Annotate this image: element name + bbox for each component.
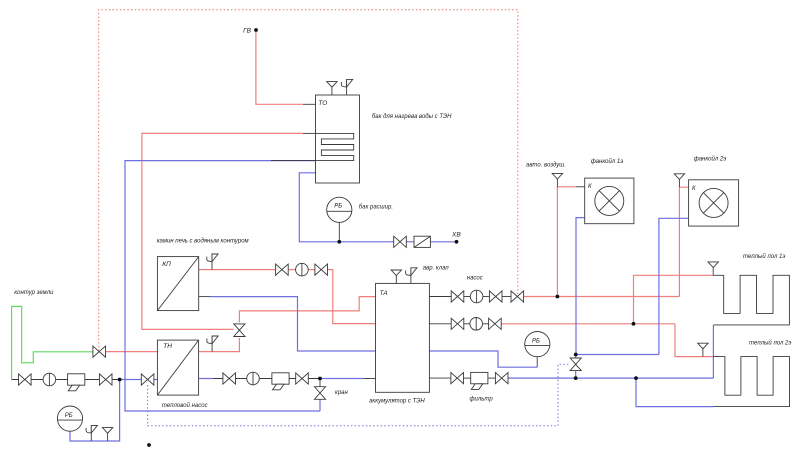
- svg-text:РБ: РБ: [65, 413, 73, 419]
- heat pump TH: [157, 340, 198, 395]
- node fan supply junction: [556, 295, 560, 299]
- valve TA floor supply 2: [489, 318, 502, 329]
- wire: warm floor 1 red riser and supply: [634, 275, 714, 324]
- wire: fan coil 2 blue return: [659, 218, 689, 354]
- valve brine 1: [19, 374, 32, 385]
- safety flag on TH output: [207, 336, 218, 352]
- wire: cold water XB line into tank bottom with expansion tank tee: [299, 173, 456, 242]
- fireplace boiler KP: [157, 257, 198, 311]
- svg-text:бак расшир.: бак расшир.: [359, 205, 393, 211]
- valve TA fan supply 1: [451, 291, 464, 302]
- filter TH output: [272, 373, 289, 390]
- svg-text:теплый пол 2э: теплый пол 2э: [749, 340, 791, 347]
- svg-text:К: К: [588, 184, 592, 190]
- wire: fancoil 1 red riser and inlet stub: [557, 187, 576, 297]
- svg-text:авр. клап: авр. клап: [423, 266, 450, 272]
- safety flag on TA top: [406, 268, 417, 284]
- svg-text:фанкойл 1э: фанкойл 1э: [591, 158, 624, 165]
- svg-text:аккумулятор с ТЭН: аккумулятор с ТЭН: [369, 399, 425, 405]
- wire: expansion tank RB1 stem: [338, 222, 340, 241]
- air vent funnel above fancoil 1 supply: [552, 173, 562, 186]
- wire: kran riser from TH output junction down to tank return run: [319, 379, 321, 388]
- node RB1 tee: [337, 240, 341, 244]
- vertical valve on fan coil return with blue dotted link: [570, 358, 581, 371]
- wire: black coil return stub at tank: [271, 160, 316, 162]
- wire: green ground loop (контур земли): [12, 306, 93, 379]
- valve KP output 2: [315, 264, 328, 275]
- pump KP circuit: [296, 263, 309, 276]
- pump TH output: [247, 372, 260, 385]
- wire: KP blue return to TA input 3: [211, 297, 376, 351]
- svg-text:камин печь с водяным контуром: камин печь с водяным контуром: [157, 239, 249, 245]
- valve TA return 2: [495, 373, 508, 384]
- svg-text:ТН: ТН: [163, 343, 172, 350]
- pump TA fan supply: [470, 290, 483, 303]
- check valve XB line: [414, 236, 430, 247]
- valve brine 2: [99, 374, 112, 385]
- expansion tank RB3 on brine circuit: [57, 406, 82, 431]
- wire: blue dotted control link from heat-pump inlet valve to return-line valve: [148, 364, 570, 426]
- svg-text:ГВ: ГВ: [243, 28, 252, 35]
- wire: fan coil 1 blue return: [576, 218, 585, 355]
- wire: fan coil return merge line to return valve: [576, 354, 659, 356]
- svg-text:авто. воздуш.: авто. воздуш.: [526, 163, 566, 169]
- node brine junction: [118, 378, 122, 382]
- vertical valve on TH riser: [234, 324, 245, 337]
- wire: TA return line via filter y 378.1: [429, 377, 451, 379]
- node GV: [254, 28, 258, 32]
- valve on ground loop with red dotted link: [93, 346, 106, 357]
- fan coil 2 box: [689, 180, 739, 226]
- svg-text:контур земли: контур земли: [14, 290, 54, 296]
- node floor supply junction: [632, 322, 636, 326]
- svg-text:бак для нагрева воды с ТЭН: бак для нагрева воды с ТЭН: [372, 114, 452, 120]
- wire: black brine line from ground loop to TH with valves pump filter: [12, 379, 120, 381]
- wire: blue brine segment from junction to TH inlet valve: [120, 379, 158, 381]
- kran vertical valve: [314, 387, 325, 400]
- svg-text:кран: кран: [335, 390, 349, 396]
- flag vent on brine expansion line: [86, 425, 97, 441]
- heating coil TEN inside tank: [316, 133, 354, 160]
- wire: TA fan coil supply line red y 296.5: [429, 296, 451, 298]
- lone node bottom left: [147, 443, 151, 447]
- expansion tank RB1 near hot water tank: [327, 197, 352, 222]
- svg-text:РБ: РБ: [334, 204, 342, 210]
- svg-text:РБ: РБ: [532, 339, 540, 345]
- valve TA return 1: [451, 373, 464, 384]
- wire: warm floor 2 red drop and supply: [675, 324, 713, 357]
- svg-text:насос: насос: [467, 276, 483, 282]
- wire: GV hot water red line from tank top to GV node: [256, 30, 303, 104]
- valve TA fan supply 2: [489, 291, 502, 302]
- node floor return junction: [634, 376, 638, 380]
- wire: black stub KP blue return at box: [199, 296, 211, 298]
- svg-text:фильтр: фильтр: [470, 397, 494, 403]
- hot water tank TO: [316, 95, 360, 183]
- pump TA floor supply: [470, 318, 483, 331]
- accumulator tank TA: [376, 283, 430, 392]
- valve fan supply with red dotted link: [511, 291, 524, 302]
- valve KP output 1: [276, 264, 289, 275]
- node TH output junction: [318, 377, 322, 381]
- wire: KP red output through valves down to TA input 2: [199, 270, 376, 324]
- svg-text:ТА: ТА: [380, 290, 388, 297]
- expansion tank RB2 near TA: [525, 332, 550, 357]
- filter TA return: [471, 372, 488, 389]
- safety flag on tank top: [341, 79, 352, 95]
- node fan return merge: [574, 353, 578, 357]
- funnel vent on tank top: [327, 82, 337, 95]
- filter brine: [68, 374, 85, 391]
- svg-text:фанкойл 2э: фанкойл 2э: [694, 156, 727, 163]
- valve TH output 1: [223, 373, 236, 384]
- wire: fancoil 2 red riser and inlet stub: [679, 187, 688, 296]
- wire: tank coil return blue line to big vertical and bottom run: [125, 161, 320, 411]
- pump brine: [43, 373, 56, 386]
- warm floor 1 serpentine: [713, 275, 789, 325]
- wire: TH blue output through pump and filter to TA input 4: [199, 378, 214, 380]
- funnel vent on TA top: [391, 270, 401, 283]
- funnel vent on brine expansion line: [102, 428, 112, 441]
- wire: TA expansion tank RB2 blue line: [429, 351, 537, 367]
- valve TA floor supply 1: [451, 318, 464, 329]
- svg-text:ХВ: ХВ: [451, 232, 461, 239]
- valve TH output 2: [296, 373, 309, 384]
- valve XB line: [394, 236, 407, 247]
- wire: warm floor 2 blue return run: [636, 378, 713, 407]
- wire: red dotted control link from ground-loop valve to fancoil-line valve: [99, 10, 518, 351]
- svg-text:ТО: ТО: [318, 100, 327, 107]
- svg-text:К: К: [692, 186, 696, 192]
- svg-text:теплый пол 1э: теплый пол 1э: [743, 253, 785, 260]
- svg-text:тепловой насос: тепловой насос: [162, 402, 208, 409]
- air vent funnel warm floor 2: [698, 343, 708, 356]
- wire: blue drop from brine junction down to expansion line: [70, 380, 120, 442]
- air vent funnel warm floor 1: [708, 262, 718, 275]
- svg-text:КП: КП: [162, 261, 171, 268]
- wire: red from ground-loop valve into heat pump TH left: [106, 351, 158, 353]
- warm floor 2 serpentine: [713, 357, 789, 407]
- air vent funnel above fancoil 2 supply: [674, 174, 684, 187]
- valve at TH brine inlet: [141, 374, 154, 385]
- wire: red from hot water tank coil inlet down to riser valve tee: [142, 133, 303, 329]
- safety flag on KP output: [207, 254, 218, 270]
- node return line junction: [574, 376, 578, 380]
- fan coil 1 box: [585, 178, 634, 224]
- wire: warm floor 1 blue return drop: [712, 325, 714, 378]
- wire: TH red output to riser valve then to TA input 1: [199, 338, 240, 352]
- wire: TA floor supply line red y 323.8: [429, 323, 451, 325]
- node XB: [455, 240, 459, 244]
